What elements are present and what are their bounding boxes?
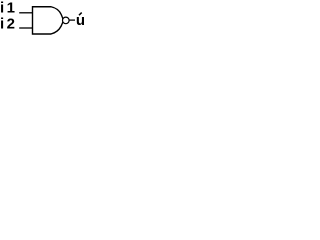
inverter bubble — [63, 17, 70, 24]
svg-text:i1: i1 — [0, 0, 18, 17]
svg-text:i2: i2 — [0, 16, 18, 33]
acute accent of u — [79, 13, 82, 16]
wire i2 to gate — [19, 27, 33, 29]
nand gate U1 body — [33, 7, 64, 34]
output wire — [70, 19, 76, 21]
wire i1 to gate — [19, 12, 33, 14]
